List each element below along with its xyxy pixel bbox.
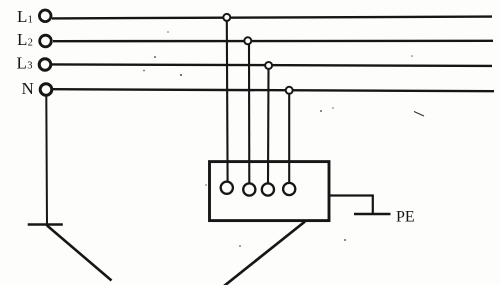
svg-text:L: L (17, 7, 27, 26)
svg-text:3: 3 (27, 61, 32, 72)
svg-text:L: L (17, 30, 27, 49)
svg-text:PE: PE (396, 208, 415, 225)
svg-text:1: 1 (28, 14, 33, 25)
svg-text:L: L (17, 53, 27, 72)
svg-text:2: 2 (28, 38, 33, 49)
svg-text:N: N (22, 79, 34, 98)
